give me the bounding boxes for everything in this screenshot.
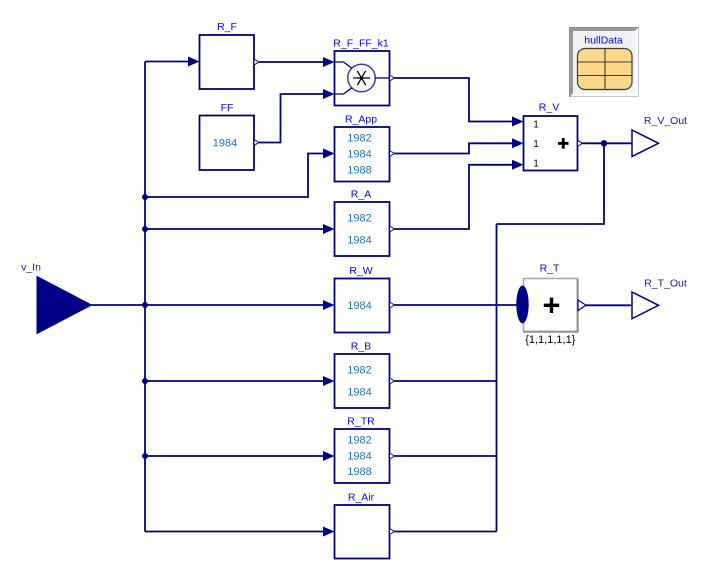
svg-text:1984: 1984 bbox=[347, 451, 371, 463]
port R_TR.y bbox=[390, 453, 395, 459]
junction bus to R_TR bbox=[142, 453, 148, 459]
wire v_In to bus bbox=[92, 304, 146, 306]
wire collector vertical bbox=[496, 224, 498, 532]
block R_Air bbox=[335, 505, 390, 559]
port R_W.y bbox=[390, 302, 395, 308]
svg-text:R_TR: R_TR bbox=[347, 416, 375, 428]
wire bus to R_A bbox=[145, 228, 324, 230]
block R_T (vector add) bbox=[523, 279, 579, 333]
hullData table bbox=[578, 49, 633, 90]
arrowhead into R_App bbox=[323, 149, 335, 159]
svg-text:1: 1 bbox=[533, 159, 539, 170]
svg-text:R_W: R_W bbox=[349, 265, 372, 277]
svg-text:R_B: R_B bbox=[351, 341, 371, 353]
block R_A bbox=[335, 202, 390, 256]
output connector R_V_Out bbox=[632, 130, 659, 157]
svg-text:1988: 1988 bbox=[347, 165, 371, 177]
svg-text:v_In: v_In bbox=[21, 262, 41, 274]
svg-text:1984: 1984 bbox=[347, 149, 371, 161]
record hullData bbox=[570, 28, 639, 97]
junction bus to R_App bbox=[142, 194, 148, 200]
product output line bbox=[375, 77, 389, 79]
input connector v_In bbox=[37, 277, 92, 334]
svg-text:1988: 1988 bbox=[347, 466, 371, 478]
output connector R_T_Out bbox=[632, 292, 659, 319]
wire R_F_FF_k1.y to R_V.u1 bbox=[395, 78, 514, 122]
port R_Air.y bbox=[390, 529, 395, 535]
product circle bbox=[348, 64, 376, 92]
wire R_F.y to R_F_FF_k1.u1 bbox=[259, 61, 324, 63]
svg-text:1984: 1984 bbox=[347, 300, 371, 312]
arrowhead into R_V.u1 bbox=[512, 117, 524, 127]
wire R_Air.y to collector bbox=[395, 531, 497, 533]
port R_App.y bbox=[390, 151, 395, 157]
wire bus to R_Air bbox=[145, 531, 324, 533]
block R_TR bbox=[335, 429, 390, 483]
svg-text:1982: 1982 bbox=[347, 133, 371, 145]
wire vertical bus bbox=[144, 62, 146, 532]
svg-text:FF: FF bbox=[221, 102, 234, 114]
svg-text:{1,1,1,1,1}: {1,1,1,1,1} bbox=[525, 334, 575, 346]
svg-text:R_Air: R_Air bbox=[348, 492, 375, 504]
wire R_A.y to R_V.u3 bbox=[395, 165, 514, 229]
plus sign R_V bbox=[558, 138, 569, 149]
product input lines bbox=[335, 62, 352, 68]
wire bus to R_F bbox=[145, 61, 189, 63]
wire FF.y to R_F_FF_k1.u2 bbox=[259, 94, 324, 143]
wire R_App.y to R_V.u2 bbox=[395, 143, 514, 153]
arrowhead into R_W bbox=[323, 300, 335, 310]
block R_App bbox=[335, 127, 390, 182]
svg-text:R_App: R_App bbox=[345, 114, 377, 126]
port R_F_FF_k1.y bbox=[390, 75, 395, 81]
block R_W bbox=[335, 279, 390, 333]
svg-text:R_V: R_V bbox=[539, 102, 559, 114]
arrowhead into R_B bbox=[323, 376, 335, 386]
svg-text:1982: 1982 bbox=[347, 365, 371, 377]
block R_B bbox=[335, 354, 390, 408]
input ellipse R_T bbox=[516, 286, 528, 324]
arrowhead into R_V.u3 bbox=[512, 160, 524, 170]
wire R_T.y to R_T_Out bbox=[586, 304, 632, 306]
wire bus to R_W bbox=[145, 304, 324, 306]
svg-text:1: 1 bbox=[533, 120, 539, 131]
port R_B.y bbox=[390, 378, 395, 384]
block R_F bbox=[200, 35, 255, 89]
svg-text:R_T_Out: R_T_Out bbox=[644, 278, 687, 290]
arrowhead into R_TR bbox=[323, 451, 335, 461]
port R_F.y bbox=[254, 59, 259, 65]
asterisk bbox=[353, 71, 370, 85]
svg-text:1982: 1982 bbox=[347, 213, 371, 225]
wire R_W.y to R_T bbox=[395, 304, 517, 306]
junction R_V.y bbox=[601, 140, 607, 146]
wire R_V feedback to R_T bbox=[497, 143, 605, 224]
wire bus to R_App bbox=[145, 154, 324, 198]
svg-text:hullData: hullData bbox=[584, 35, 623, 47]
arrowhead into R_Air bbox=[323, 527, 335, 537]
arrowhead into R_F_FF_k1.u2 bbox=[323, 89, 335, 99]
svg-text:1: 1 bbox=[533, 139, 539, 150]
arrowhead into R_V.u2 bbox=[512, 138, 524, 148]
block FF bbox=[200, 116, 255, 171]
svg-text:1984: 1984 bbox=[213, 138, 237, 150]
svg-text:1984: 1984 bbox=[347, 235, 371, 247]
arrowhead into R_A bbox=[323, 224, 335, 234]
svg-text:R_V_Out: R_V_Out bbox=[644, 115, 687, 127]
svg-text:R_F_FF_k1: R_F_FF_k1 bbox=[333, 38, 389, 50]
wire R_B.y to collector bbox=[395, 380, 497, 382]
wire R_V.y to R_V_Out bbox=[583, 142, 632, 144]
port R_T.y bbox=[578, 300, 586, 311]
junction bus to R_A bbox=[142, 226, 148, 232]
plus sign R_T bbox=[544, 298, 559, 313]
svg-text:R_F: R_F bbox=[217, 21, 237, 33]
svg-text:1984: 1984 bbox=[347, 387, 371, 399]
svg-text:R_A: R_A bbox=[351, 189, 371, 201]
block R_F_FF_k1 (product) bbox=[335, 51, 390, 106]
svg-text:1982: 1982 bbox=[347, 435, 371, 447]
wire R_TR.y to collector bbox=[395, 455, 497, 457]
port R_V.y bbox=[578, 140, 583, 146]
junction bus to R_W bbox=[142, 302, 148, 308]
wire bus to R_TR bbox=[145, 455, 324, 457]
port FF.y bbox=[254, 140, 259, 146]
junction bus to R_B bbox=[142, 378, 148, 384]
block R_V (add3) bbox=[524, 116, 578, 171]
arrowhead into R_F bbox=[188, 57, 200, 67]
wire bus to R_B bbox=[145, 380, 324, 382]
arrowhead into R_F_FF_k1.u1 bbox=[323, 57, 335, 67]
port R_A.y bbox=[390, 226, 395, 232]
svg-text:R_T: R_T bbox=[540, 263, 560, 275]
